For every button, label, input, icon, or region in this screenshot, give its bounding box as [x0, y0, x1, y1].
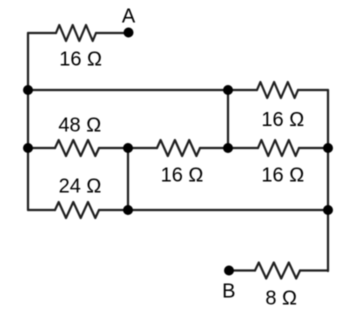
svg-text:16 Ω: 16 Ω	[261, 164, 304, 186]
svg-text:8 Ω: 8 Ω	[265, 287, 297, 309]
svg-text:16 Ω: 16 Ω	[261, 109, 304, 131]
svg-text:48 Ω: 48 Ω	[58, 115, 101, 137]
svg-text:16 Ω: 16 Ω	[59, 48, 102, 70]
svg-text:A: A	[122, 5, 136, 27]
svg-text:B: B	[222, 281, 235, 303]
svg-text:16 Ω: 16 Ω	[161, 165, 204, 187]
svg-text:24 Ω: 24 Ω	[59, 176, 102, 198]
